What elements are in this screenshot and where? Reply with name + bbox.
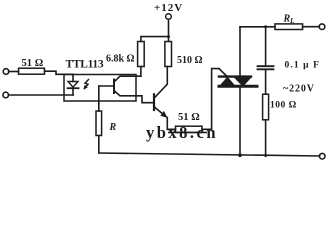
terminal IN1 (top-left input) — [3, 69, 9, 75]
watermark strike — [168, 132, 207, 134]
wire — [202, 69, 219, 130]
top wire — [240, 26, 275, 28]
svg-text:6.8k Ω: 6.8k Ω — [106, 54, 135, 65]
resistor 6.8k — [138, 42, 145, 67]
transistor Q1 — [154, 67, 167, 130]
wire triac top — [239, 27, 241, 76]
svg-text:R: R — [109, 122, 117, 133]
junction — [264, 25, 267, 28]
junction — [167, 35, 170, 38]
svg-text:0.1 μ F: 0.1 μ F — [285, 61, 321, 71]
wire triac bottom — [239, 87, 241, 155]
phototransistor (inside optocoupler) — [99, 76, 153, 103]
wire — [303, 26, 320, 28]
svg-text:510 Ω: 510 Ω — [177, 55, 203, 66]
triac V1 — [219, 77, 257, 87]
terminal IN2 (bottom-left input) — [3, 92, 9, 98]
wire — [168, 19, 170, 41]
terminal OUT bottom — [319, 153, 325, 159]
gate lead diagonal — [219, 69, 226, 76]
resistor 100ohm — [263, 94, 269, 120]
wire LED anode drop — [72, 74, 74, 81]
resistor R — [96, 111, 102, 136]
terminal OUT top — [319, 24, 325, 30]
wire (photo base to R) — [98, 86, 100, 111]
svg-text:+12V: +12V — [154, 2, 183, 14]
junction — [238, 153, 242, 157]
wire 6.8k bottom — [140, 67, 142, 77]
wire — [8, 94, 73, 96]
capacitor C1 0.1uF — [258, 27, 274, 94]
resistor 510 — [165, 42, 172, 67]
resistor 51ohm gate — [176, 126, 203, 132]
wire — [45, 71, 74, 74]
bottom rail — [99, 153, 320, 156]
resistor 51ohm input — [19, 68, 45, 74]
svg-text:TTL113: TTL113 — [66, 59, 104, 71]
wire — [9, 71, 19, 73]
svg-text:51 Ω: 51 Ω — [178, 112, 200, 123]
junction — [264, 154, 267, 157]
svg-text:~220V: ~220V — [283, 84, 315, 95]
wire — [265, 120, 267, 156]
optocoupler U1 TTL113 box — [64, 75, 136, 102]
resistor RL — [275, 24, 303, 30]
LED D1 (inside optocoupler) — [68, 82, 79, 96]
+12V terminal — [166, 14, 172, 20]
wire — [98, 136, 100, 154]
svg-text:51 Ω: 51 Ω — [22, 58, 44, 69]
wire — [141, 37, 169, 42]
svg-text:100 Ω: 100 Ω — [270, 101, 297, 111]
light arrow (photo symbol) — [84, 80, 88, 89]
wire — [167, 128, 175, 130]
